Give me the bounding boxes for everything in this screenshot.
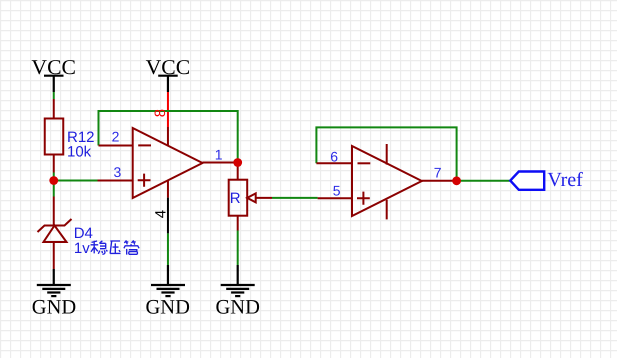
svg-text:3: 3 — [114, 164, 122, 180]
svg-text:6: 6 — [330, 149, 338, 165]
svg-text:GND: GND — [145, 297, 189, 319]
svg-text:GND: GND — [215, 297, 259, 319]
稳 — [91, 241, 108, 255]
pin 4 wire (black) — [167, 198, 169, 234]
svg-text:10k: 10k — [67, 143, 92, 160]
feedback wire pin1 to pin2 of U1 — [99, 111, 238, 163]
op-amp U2 — [352, 144, 422, 219]
wire pin 4 to ground — [167, 233, 169, 265]
pin 4 of U1 — [167, 181, 169, 198]
svg-text:8: 8 — [152, 109, 169, 117]
junction node C (U2 output) — [452, 176, 461, 185]
op-amp U1 — [133, 128, 203, 198]
svg-text:GND: GND — [32, 297, 76, 319]
pin 6 of U2 — [316, 162, 352, 164]
svg-text:2: 2 — [112, 129, 120, 145]
svg-text:5: 5 — [333, 182, 341, 198]
管 — [124, 240, 139, 254]
pin 7 of U2 (output) — [422, 180, 457, 182]
pin 3 of U1 — [98, 180, 133, 182]
port Vref — [510, 172, 544, 190]
svg-text:VCC: VCC — [31, 55, 76, 79]
svg-text:7: 7 — [434, 165, 442, 181]
svg-text:Vref: Vref — [547, 169, 583, 191]
ground symbol (left) — [37, 269, 71, 296]
ground symbol (right) — [221, 265, 255, 296]
svg-text:1v: 1v — [74, 240, 90, 257]
svg-text:4: 4 — [152, 210, 169, 218]
junction node B (U1 output) — [233, 158, 242, 167]
pin 1 of U1 (output) — [203, 162, 238, 164]
ground symbol (middle) — [151, 265, 185, 296]
wire R12 to node A / diode — [53, 173, 55, 197]
wire node A to pin 3 — [54, 180, 98, 182]
pin 2 of U1 — [99, 145, 133, 147]
zener diode D4 — [38, 197, 72, 270]
svg-text:R: R — [230, 190, 241, 207]
VCC power symbol (middle) — [158, 76, 178, 92]
pin 5 of U2 — [318, 197, 352, 199]
wire U2 output to port — [457, 180, 511, 182]
VCC power symbol (left) — [44, 76, 64, 92]
wire R wiper to pin 5 — [272, 197, 318, 199]
potentiometer R — [229, 163, 272, 231]
feedback wire pin7 to pin6 of U2 — [316, 127, 456, 180]
pin 8 of U1 — [167, 127, 169, 146]
resistor R12 — [45, 99, 64, 173]
D4 value label CJK 稳压管 — [91, 240, 140, 254]
svg-text:VCC: VCC — [146, 55, 191, 79]
wire VCC to pin 8 (red) — [167, 92, 169, 127]
junction node A — [49, 176, 58, 185]
wire R bottom to ground — [237, 231, 239, 266]
压 — [110, 241, 120, 254]
wire VCC to R12 (left) — [53, 92, 55, 99]
svg-text:1: 1 — [215, 146, 223, 162]
